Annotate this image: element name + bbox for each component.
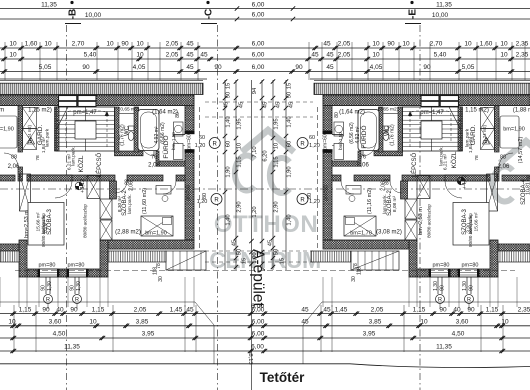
svg-text:1,15 m2): 1,15 m2) xyxy=(465,108,489,114)
svg-text:15: 15 xyxy=(226,83,232,89)
svg-text:bm=2,53 m: bm=2,53 m xyxy=(418,207,424,235)
svg-text:3,95: 3,95 xyxy=(363,331,376,338)
svg-text:1,40: 1,40 xyxy=(226,116,232,127)
svg-text:2,05: 2,05 xyxy=(371,307,384,314)
svg-text:1,30: 1,30 xyxy=(462,281,468,291)
svg-text:60: 60 xyxy=(309,135,315,141)
svg-text:6,00: 6,00 xyxy=(252,2,265,9)
svg-text:50: 50 xyxy=(226,92,232,98)
svg-text:R: R xyxy=(467,297,471,303)
svg-text:8,08 m²: 8,08 m² xyxy=(392,195,398,212)
svg-text:1,95: 1,95 xyxy=(237,118,243,129)
svg-text:1,30: 1,30 xyxy=(76,281,82,291)
svg-text:3,85: 3,85 xyxy=(369,319,382,326)
svg-text:45: 45 xyxy=(186,307,194,314)
svg-text:10,00: 10,00 xyxy=(432,12,449,19)
svg-text:3,20: 3,20 xyxy=(43,223,49,233)
svg-text:1,20: 1,20 xyxy=(309,143,320,149)
svg-text:7,10: 7,10 xyxy=(252,146,258,157)
svg-text:1,40: 1,40 xyxy=(226,214,232,225)
svg-text:bm=2,53 m: bm=2,53 m xyxy=(24,210,30,238)
svg-text:(11,16 m2): (11,16 m2) xyxy=(367,188,373,214)
svg-text:11,35: 11,35 xyxy=(41,2,57,9)
svg-text:(1,88 m: (1,88 m xyxy=(513,108,530,114)
svg-text:1,15: 1,15 xyxy=(19,307,32,314)
svg-text:1,95: 1,95 xyxy=(274,118,280,129)
svg-text:2,05: 2,05 xyxy=(134,307,147,314)
svg-text:1,30: 1,30 xyxy=(433,281,439,291)
svg-text:78: 78 xyxy=(474,155,480,161)
svg-text:2,06: 2,06 xyxy=(498,164,510,170)
svg-text:2,35: 2,35 xyxy=(516,52,529,59)
svg-text:(1,64 m2): (1,64 m2) xyxy=(339,110,365,116)
svg-text:78: 78 xyxy=(35,155,41,161)
svg-text:5,40: 5,40 xyxy=(434,52,447,59)
svg-text:2,90: 2,90 xyxy=(237,201,243,212)
svg-text:90: 90 xyxy=(439,307,447,314)
svg-text:10: 10 xyxy=(464,41,472,48)
svg-text:45: 45 xyxy=(289,102,295,108)
svg-text:6,20: 6,20 xyxy=(263,150,269,161)
svg-text:6,00: 6,00 xyxy=(252,64,265,71)
svg-text:1,15: 1,15 xyxy=(237,156,243,167)
svg-text:80/80 acéloszlop: 80/80 acéloszlop xyxy=(427,204,432,238)
svg-text:45: 45 xyxy=(263,102,269,108)
svg-text:bm=1,50: bm=1,50 xyxy=(338,132,343,150)
svg-text:45: 45 xyxy=(224,102,230,108)
svg-text:bm=1,50: bm=1,50 xyxy=(171,132,176,150)
svg-text:2,05: 2,05 xyxy=(338,41,351,48)
svg-text:1,20: 1,20 xyxy=(195,143,206,149)
svg-text:90: 90 xyxy=(70,285,76,291)
svg-text:4,92 m²: 4,92 m² xyxy=(355,126,361,143)
svg-text:2,06: 2,06 xyxy=(381,181,387,191)
svg-text:88: 88 xyxy=(11,155,17,161)
svg-text:80: 80 xyxy=(175,112,181,118)
svg-text:10: 10 xyxy=(9,41,17,48)
svg-text:R: R xyxy=(46,297,50,303)
svg-text:(1,76 m2): (1,76 m2) xyxy=(390,124,396,146)
svg-text:10: 10 xyxy=(106,41,114,48)
svg-text:pm=80: pm=80 xyxy=(39,263,56,269)
svg-text:45: 45 xyxy=(323,41,331,48)
svg-text:1,45: 1,45 xyxy=(335,307,348,314)
svg-text:3,20: 3,20 xyxy=(467,223,473,233)
svg-text:11,35: 11,35 xyxy=(436,2,452,9)
svg-text:6,00: 6,00 xyxy=(252,52,265,59)
svg-text:(14,57 m2): (14,57 m2) xyxy=(518,137,524,164)
svg-text:45: 45 xyxy=(323,307,331,314)
svg-text:2,05: 2,05 xyxy=(166,52,179,59)
svg-text:15: 15 xyxy=(280,258,286,264)
svg-text:5,05: 5,05 xyxy=(39,64,52,71)
svg-text:80: 80 xyxy=(307,193,313,199)
svg-text:4,05: 4,05 xyxy=(370,64,383,71)
svg-text:10: 10 xyxy=(500,52,508,59)
svg-text:6,00: 6,00 xyxy=(252,307,265,314)
svg-text:8,13: 8,13 xyxy=(247,353,253,364)
svg-text:10,00: 10,00 xyxy=(85,12,102,19)
svg-text:60: 60 xyxy=(226,141,232,147)
svg-text:-C: -C xyxy=(204,9,215,20)
svg-text:(1,76 m2): (1,76 m2) xyxy=(120,124,126,146)
svg-text:45: 45 xyxy=(268,240,274,246)
svg-text:30: 30 xyxy=(158,276,164,282)
svg-text:8,30 m²: 8,30 m² xyxy=(117,195,123,212)
svg-text:3,85: 3,85 xyxy=(136,319,149,326)
svg-text:(6,56 m2): (6,56 m2) xyxy=(160,122,166,144)
svg-text:+4,72: +4,72 xyxy=(462,175,468,189)
svg-text:Tetőtér: Tetőtér xyxy=(260,370,305,385)
svg-text:6,00: 6,00 xyxy=(252,41,265,48)
svg-text:pm=80: pm=80 xyxy=(68,263,85,269)
svg-text:45: 45 xyxy=(232,240,238,246)
svg-text:11,35: 11,35 xyxy=(64,344,80,351)
svg-text:R: R xyxy=(214,197,219,203)
svg-text:2,06: 2,06 xyxy=(357,163,369,169)
svg-text:pm=90: pm=90 xyxy=(186,185,192,201)
svg-text:90: 90 xyxy=(42,307,50,314)
svg-text:pm=1,47: pm=1,47 xyxy=(420,110,444,116)
svg-text:10: 10 xyxy=(402,41,410,48)
svg-text:45: 45 xyxy=(326,64,334,71)
svg-text:2,35: 2,35 xyxy=(516,41,529,48)
svg-text:bm=1,90: bm=1,90 xyxy=(0,127,14,133)
svg-text:10: 10 xyxy=(500,41,508,48)
svg-text:(2,88 m2): (2,88 m2) xyxy=(115,230,141,236)
svg-text:10: 10 xyxy=(372,52,380,59)
svg-text:3,95: 3,95 xyxy=(142,331,155,338)
svg-text:94: 94 xyxy=(252,87,258,94)
svg-text:45: 45 xyxy=(186,41,194,48)
svg-text:lam.park.: lam.park. xyxy=(127,194,133,214)
svg-text:45: 45 xyxy=(301,319,309,326)
svg-text:lam.park.: lam.park. xyxy=(382,194,388,214)
svg-text:50: 50 xyxy=(287,92,293,98)
svg-text:15,66 m²: 15,66 m² xyxy=(474,212,480,231)
svg-text:4,50: 4,50 xyxy=(53,331,66,338)
svg-text:45: 45 xyxy=(276,102,282,108)
svg-text:LÉPCSŐ: LÉPCSŐ xyxy=(96,152,103,177)
svg-text:LÉPCSŐ: LÉPCSŐ xyxy=(411,152,418,177)
svg-text:10: 10 xyxy=(372,41,380,48)
svg-text:90: 90 xyxy=(440,285,446,291)
svg-text:90: 90 xyxy=(295,64,303,71)
svg-text:-B: -B xyxy=(68,9,79,20)
svg-text:60: 60 xyxy=(287,141,293,147)
svg-text:15: 15 xyxy=(287,83,293,89)
svg-text:R: R xyxy=(75,297,79,303)
svg-text:45: 45 xyxy=(326,52,334,59)
svg-text:11,35: 11,35 xyxy=(436,344,452,351)
svg-text:90: 90 xyxy=(467,307,475,314)
svg-text:1,84 m²: 1,84 m² xyxy=(468,136,474,153)
svg-text:6,21 m²: 6,21 m² xyxy=(67,153,73,170)
svg-text:5,40: 5,40 xyxy=(84,52,97,59)
svg-text:45: 45 xyxy=(301,307,309,314)
svg-text:10: 10 xyxy=(136,41,144,48)
svg-text:10: 10 xyxy=(274,143,280,149)
svg-text:80: 80 xyxy=(334,112,340,118)
svg-text:1,20: 1,20 xyxy=(252,206,258,217)
svg-text:pm=90: pm=90 xyxy=(324,185,330,201)
svg-text:90: 90 xyxy=(41,285,47,291)
svg-text:1,15 m2): 1,15 m2) xyxy=(28,108,52,114)
svg-text:2,90: 2,90 xyxy=(274,201,280,212)
svg-text:45: 45 xyxy=(186,52,194,59)
svg-text:88: 88 xyxy=(500,155,506,161)
svg-text:2,70: 2,70 xyxy=(72,41,85,48)
svg-text:3,60: 3,60 xyxy=(456,319,469,326)
svg-text:(1,64 m2): (1,64 m2) xyxy=(152,110,178,116)
svg-text:10: 10 xyxy=(9,52,17,59)
svg-text:3,60: 3,60 xyxy=(49,319,62,326)
svg-text:90: 90 xyxy=(214,64,222,71)
svg-text:76: 76 xyxy=(360,155,366,161)
svg-text:50: 50 xyxy=(274,249,280,255)
svg-text:2,06: 2,06 xyxy=(129,181,135,191)
svg-text:45: 45 xyxy=(311,52,319,59)
svg-text:pm=1,47: pm=1,47 xyxy=(73,110,97,116)
svg-text:1,60: 1,60 xyxy=(25,41,38,48)
svg-text:1,45: 1,45 xyxy=(170,307,183,314)
svg-text:6,21 m²: 6,21 m² xyxy=(443,153,449,170)
svg-text:R: R xyxy=(300,141,305,147)
svg-text:A-épület: A-épület xyxy=(250,249,267,307)
svg-text:6,00: 6,00 xyxy=(252,319,265,326)
svg-text:bm=1,90: bm=1,90 xyxy=(503,127,525,133)
svg-text:6,00: 6,00 xyxy=(252,12,265,19)
svg-text:118: 118 xyxy=(357,267,363,275)
svg-text:(11,60 m2): (11,60 m2) xyxy=(142,188,148,214)
svg-text:1,15: 1,15 xyxy=(274,156,280,167)
svg-text:R: R xyxy=(438,297,442,303)
svg-text:50: 50 xyxy=(237,249,243,255)
svg-text:KÖZL: KÖZL xyxy=(77,155,85,172)
svg-text:1,40: 1,40 xyxy=(287,214,293,225)
svg-text:90: 90 xyxy=(387,41,395,48)
svg-text:1,15: 1,15 xyxy=(92,307,105,314)
svg-text:R: R xyxy=(213,141,218,147)
svg-text:4,92 m²: 4,92 m² xyxy=(154,126,160,143)
svg-text:pm=80: pm=80 xyxy=(462,263,479,269)
svg-text:5,05: 5,05 xyxy=(462,64,475,71)
svg-text:pm=60: pm=60 xyxy=(187,134,193,150)
svg-text:2,05: 2,05 xyxy=(338,52,351,59)
svg-text:R: R xyxy=(300,197,305,203)
svg-text:1,84 m²: 1,84 m² xyxy=(41,136,47,153)
svg-text:pm=80: pm=80 xyxy=(433,263,450,269)
svg-text:10: 10 xyxy=(89,319,97,326)
svg-text:2,70: 2,70 xyxy=(430,41,443,48)
svg-text:10: 10 xyxy=(237,143,243,149)
svg-text:1,90: 1,90 xyxy=(287,166,293,177)
svg-text:10,81 m²: 10,81 m² xyxy=(526,175,530,195)
svg-text:90: 90 xyxy=(82,64,90,71)
svg-text:15,66 m²: 15,66 m² xyxy=(36,212,42,231)
svg-text:45: 45 xyxy=(200,52,208,59)
svg-text:4,50: 4,50 xyxy=(452,331,465,338)
svg-text:2,05: 2,05 xyxy=(166,41,179,48)
svg-text:2,35: 2,35 xyxy=(518,307,530,314)
svg-text:(0,65 m2): (0,65 m2) xyxy=(119,107,140,113)
svg-text:90: 90 xyxy=(469,285,475,291)
svg-text:1,15: 1,15 xyxy=(413,307,426,314)
svg-text:(1,88 m: (1,88 m xyxy=(0,108,4,114)
svg-text:KÖZL: KÖZL xyxy=(450,151,458,168)
svg-text:10: 10 xyxy=(44,41,52,48)
svg-text:90: 90 xyxy=(70,307,78,314)
svg-text:30: 30 xyxy=(351,276,357,282)
svg-text:1,30: 1,30 xyxy=(47,281,53,291)
svg-text:1,90: 1,90 xyxy=(226,166,232,177)
svg-text:80: 80 xyxy=(202,193,208,199)
svg-text:1,15: 1,15 xyxy=(486,307,499,314)
svg-text:80/80 acéloszlop: 80/80 acéloszlop xyxy=(83,204,88,238)
svg-text:90: 90 xyxy=(121,41,129,48)
svg-text:bm=1,70: bm=1,70 xyxy=(350,231,372,237)
svg-text:pm=60: pm=60 xyxy=(323,134,329,150)
svg-text:bm=1,90: bm=1,90 xyxy=(145,231,167,237)
svg-text:2,06: 2,06 xyxy=(148,163,160,169)
svg-text:(3,08 m2): (3,08 m2) xyxy=(376,230,402,236)
svg-text:76: 76 xyxy=(151,155,157,161)
svg-text:118: 118 xyxy=(153,267,159,275)
svg-text:60: 60 xyxy=(199,135,205,141)
svg-text:45: 45 xyxy=(186,64,194,71)
svg-text:45: 45 xyxy=(239,102,245,108)
svg-text:15: 15 xyxy=(242,258,248,264)
svg-text:1,60: 1,60 xyxy=(480,41,493,48)
svg-text:4,05: 4,05 xyxy=(133,64,146,71)
svg-text:(0,65 m2): (0,65 m2) xyxy=(378,107,399,113)
svg-text:1,40: 1,40 xyxy=(287,116,293,127)
svg-text:2,06: 2,06 xyxy=(8,164,20,170)
svg-text:-E: -E xyxy=(408,9,419,19)
